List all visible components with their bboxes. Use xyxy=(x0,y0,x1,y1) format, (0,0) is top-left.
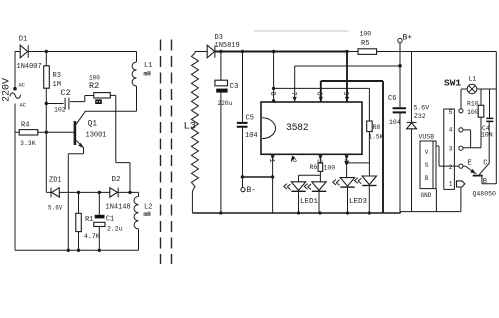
svg-text:1: 1 xyxy=(267,159,275,163)
svg-text:6: 6 xyxy=(315,92,323,96)
svg-text:C3: C3 xyxy=(230,83,240,91)
svg-text:220u: 220u xyxy=(218,100,233,107)
svg-text:104: 104 xyxy=(245,132,258,140)
svg-text:3: 3 xyxy=(315,159,323,163)
svg-text:D3: D3 xyxy=(215,34,223,42)
svg-text:D2: D2 xyxy=(112,176,121,184)
svg-text:C2: C2 xyxy=(61,88,71,98)
svg-text:B-: B- xyxy=(247,186,257,195)
svg-text:GND: GND xyxy=(421,192,432,199)
svg-text:5.6V: 5.6V xyxy=(48,204,63,211)
svg-text:4: 4 xyxy=(449,127,453,134)
svg-text:LED3: LED3 xyxy=(349,198,368,206)
svg-text:R5: R5 xyxy=(361,40,369,48)
svg-text:B: B xyxy=(483,178,487,186)
svg-text:7: 7 xyxy=(289,92,297,96)
svg-text:R10: R10 xyxy=(467,100,479,107)
svg-text:2: 2 xyxy=(289,159,297,163)
svg-text:L1: L1 xyxy=(144,62,152,70)
svg-text:C: C xyxy=(483,159,487,167)
svg-text:R4: R4 xyxy=(21,122,29,130)
svg-text:R3: R3 xyxy=(53,72,61,80)
svg-text:4: 4 xyxy=(341,159,349,163)
svg-text:Q48050: Q48050 xyxy=(473,190,497,197)
svg-text:C1: C1 xyxy=(106,215,114,223)
svg-text:AC: AC xyxy=(19,81,26,88)
svg-text:4.7K: 4.7K xyxy=(84,233,100,240)
svg-text:SW1: SW1 xyxy=(444,78,461,89)
svg-text:5: 5 xyxy=(341,92,349,96)
svg-text:C5: C5 xyxy=(246,115,254,123)
svg-text:mH: mH xyxy=(144,71,152,78)
svg-text:10N: 10N xyxy=(481,132,493,139)
svg-text:Z32: Z32 xyxy=(414,113,426,120)
svg-text:S: S xyxy=(425,162,429,169)
svg-text:1N4007: 1N4007 xyxy=(17,63,42,71)
svg-text:2: 2 xyxy=(449,164,453,171)
svg-text:Q1: Q1 xyxy=(88,120,98,129)
svg-text:L3: L3 xyxy=(184,121,197,133)
svg-text:R2: R2 xyxy=(89,81,99,91)
svg-text:ZD1: ZD1 xyxy=(49,177,62,185)
svg-text:13001: 13001 xyxy=(86,132,107,140)
svg-text:1: 1 xyxy=(449,181,453,188)
svg-text:5.6V: 5.6V xyxy=(414,105,430,112)
svg-text:D1: D1 xyxy=(19,36,27,44)
svg-text:104: 104 xyxy=(389,119,401,126)
svg-text:V: V xyxy=(425,149,429,156)
svg-text:R6: R6 xyxy=(310,164,318,171)
svg-text:R8: R8 xyxy=(373,124,381,131)
svg-text:100: 100 xyxy=(360,30,372,37)
svg-text:100: 100 xyxy=(324,165,336,172)
svg-text:C6: C6 xyxy=(388,95,396,103)
svg-text:1N4148: 1N4148 xyxy=(106,203,131,211)
svg-text:R1: R1 xyxy=(85,216,93,224)
svg-text:8: 8 xyxy=(268,92,276,96)
svg-text:E: E xyxy=(468,159,472,167)
svg-text:mH: mH xyxy=(144,211,152,218)
svg-text:B: B xyxy=(425,175,429,182)
svg-text:5: 5 xyxy=(449,109,453,116)
svg-text:LED1: LED1 xyxy=(300,198,319,206)
svg-text:3: 3 xyxy=(449,145,453,152)
svg-text:100: 100 xyxy=(467,109,479,116)
svg-text:102: 102 xyxy=(54,107,66,114)
svg-text:AC: AC xyxy=(20,101,27,108)
svg-text:3.3K: 3.3K xyxy=(20,140,36,147)
svg-text:L1: L1 xyxy=(469,75,477,82)
svg-text:2.2u: 2.2u xyxy=(107,226,123,233)
svg-text:1.5K: 1.5K xyxy=(369,133,384,140)
svg-text:3582: 3582 xyxy=(286,122,309,133)
svg-text:220V: 220V xyxy=(2,78,13,102)
svg-text:VUSB: VUSB xyxy=(419,134,435,141)
svg-text:1N5819: 1N5819 xyxy=(215,42,240,50)
svg-text:B+: B+ xyxy=(403,34,413,43)
